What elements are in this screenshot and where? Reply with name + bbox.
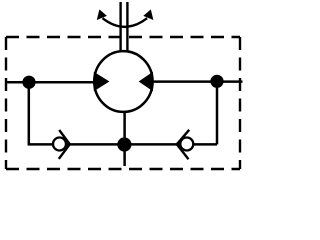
check valve CV2 seat (right) [177,130,189,159]
enclosure dashed boundary: left edge [5,37,7,169]
flow direction triangle, left (pointing inward) [94,72,110,92]
wire: left vertical drop from node A [28,82,31,144]
check valve CV1 ball (left) [53,138,66,151]
flow direction triangle, right (pointing inward) [139,72,153,92]
enclosure dashed boundary: top edge [6,36,240,38]
rotation arrowhead left [97,9,107,20]
enclosure dashed boundary: right edge [239,37,241,169]
wire: right vertical riser to node B [216,82,219,145]
rotation arrow arc (bidirectional) [103,18,148,27]
node A: left port junction [22,76,35,89]
drive shaft (double line) [119,2,121,52]
pump/motor body circle [94,51,152,112]
wire: bottom makeup line through check valves [28,143,217,146]
rotation arrowhead right [143,9,153,20]
enclosure dashed boundary: bottom edge [6,168,240,170]
node B: right port junction [210,75,223,88]
check valve CV1 seat (left) [59,130,70,159]
wire: case drain line from pump bottom to enclosure [123,110,126,166]
node C: bottom drain junction [117,137,131,151]
wire: right port line from pump to enclosure [152,80,243,83]
check valve CV2 ball (right) [180,138,193,151]
wire: left port line from enclosure to pump [6,81,95,84]
